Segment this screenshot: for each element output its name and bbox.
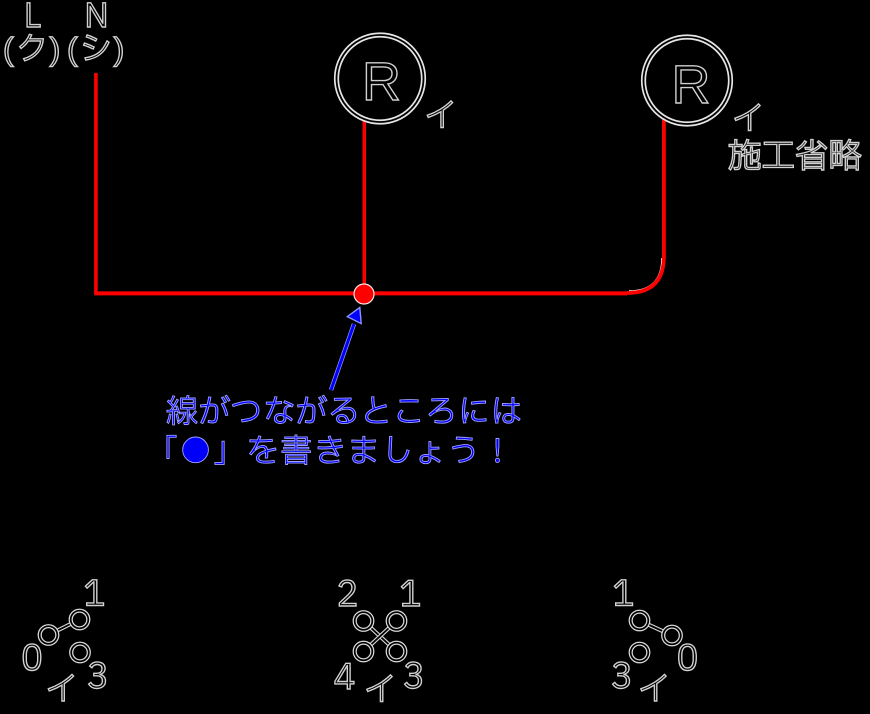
switch S2 contact 3 <box>388 643 406 661</box>
wire: lamp R1 down to junction <box>363 121 367 293</box>
switch S2 cross wire TL-BR <box>364 621 397 652</box>
terminal label (シ) <box>69 35 122 67</box>
terminal label (ク) <box>5 34 58 66</box>
switch S2 contact 2 <box>355 612 373 630</box>
switch S1 lever wire <box>49 620 80 636</box>
switch S3 contact 3 <box>631 644 649 662</box>
switch S1 pin label 0 <box>23 644 41 671</box>
switch S2 label イ <box>367 675 392 702</box>
junction node (red dot) <box>354 284 374 304</box>
switch S2 pin label 4 <box>335 663 354 689</box>
switch S3 contact 1 <box>631 612 649 630</box>
blue arrow to junction node <box>331 308 361 391</box>
lamp R2 circle <box>644 37 731 124</box>
switch S1 contact 1 <box>71 611 89 629</box>
switch S2 cross wire TR-BL <box>364 621 397 652</box>
lamp R2 letter R <box>676 66 708 103</box>
switch S2 pin label 3 <box>405 662 422 689</box>
switch S1 label イ <box>48 674 73 701</box>
label 施工省略 <box>729 139 861 170</box>
switch S3 lever wire <box>640 621 673 636</box>
switch S2 pin label 1 <box>401 580 419 606</box>
switch S3 pin label 3 <box>613 662 630 689</box>
switch S2 contact 4 <box>355 643 373 661</box>
switch S1 contact 3 <box>71 644 89 662</box>
switch S1 pin label 3 <box>89 662 106 689</box>
switch S3 pin label 1 <box>614 580 632 606</box>
wire: N terminal down to horizontal run <box>94 73 98 293</box>
switch S2 contact 1 <box>388 612 406 630</box>
label イ for lamp R2 <box>735 104 760 131</box>
terminal label L <box>27 3 40 27</box>
lamp R1 letter R <box>366 63 398 100</box>
blue annotation text line 2 <box>167 435 500 465</box>
label イ for lamp R1 <box>427 101 452 128</box>
switch S3 pin label 0 <box>679 644 697 671</box>
wire: horizontal neutral run <box>94 291 627 295</box>
switch S3 label イ <box>641 674 666 701</box>
switch S3 contact 0 <box>663 627 681 645</box>
lamp R1 circle <box>337 35 424 122</box>
switch S1 contact 0 <box>40 626 58 644</box>
switch S2 pin label 2 <box>339 580 356 606</box>
switch S1 pin label 1 <box>85 580 103 606</box>
wire: lamp R2 down with curved corner <box>627 119 664 293</box>
blue annotation text line 1 <box>167 395 520 425</box>
terminal label N <box>88 3 106 27</box>
